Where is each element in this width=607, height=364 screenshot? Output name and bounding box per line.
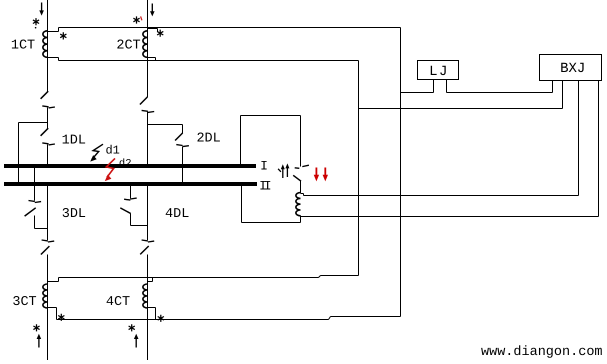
polarity asterisk 1CT primary (33, 18, 39, 25)
arrow: current out of 4CT (135, 338, 137, 348)
red fault current arrow 2 (324, 168, 326, 178)
svg-text:I: I (260, 158, 268, 173)
svg-text:d1: d1 (105, 143, 119, 157)
wire: bus tie CT secondary top to BXJ lead 3 (304, 195, 579, 197)
disconnector contact ticks feeder 2 (142, 110, 155, 112)
wire: 4CT secondary top tap (148, 278, 153, 282)
wire: LJ lead left (433, 80, 435, 93)
wire: bus tie CT secondary bottom to BXJ lead 4 (301, 216, 599, 218)
trip indication double arrows at bus tie breaker (278, 167, 287, 178)
wire: secondary bus D horizontal right (331, 316, 401, 318)
wire: secondary bus C jog (319, 276, 321, 278)
wire: bus B vertical to BXJ lead 2 (359, 108, 563, 110)
wire: feeder 2 branch to busbar II (182, 147, 184, 183)
disconnector blade feeder 1 (41, 91, 49, 99)
svg-text:d2: d2 (119, 158, 132, 170)
svg-text:2DL: 2DL (196, 131, 220, 146)
wire: bus tie bottom (242, 222, 301, 224)
current transformer 1CT coil (43, 31, 48, 58)
wire: bus tie below CT (300, 216, 302, 223)
breaker contact ticks feeder 4 (142, 240, 155, 242)
svg-text:4CT: 4CT (106, 295, 130, 310)
wire: BXJ lead 3 (578, 81, 580, 196)
wire: feeder 4 merge horizontal (131, 225, 148, 227)
svg-text:BXJ: BXJ (560, 61, 585, 77)
wire: 4CT secondary bottom tap (148, 308, 156, 320)
svg-text:1CT: 1CT (11, 38, 35, 53)
wire: feeder 1 primary middle (47, 108, 49, 129)
polarity asterisk 2CT primary (133, 16, 139, 23)
breaker contact ticks feeder 3 (42, 240, 55, 242)
breaker 1DL contact ticks (42, 143, 55, 145)
wire: feeder 1 incoming line (47, 0, 49, 92)
breaker 1DL blade (41, 128, 49, 136)
wire: bus tie CT top tap (301, 194, 304, 196)
wire: secondary bus D horizontal left (57, 319, 329, 321)
disconnector blade feeder 2 (140, 97, 148, 105)
relay BXJ box (540, 55, 602, 81)
wire: feeder 4 branch lower (130, 214, 132, 226)
polarity asterisk 4CT secondary (158, 315, 164, 322)
wire: secondary bus A vertical (400, 28, 402, 317)
wire: bus tie below breaker (300, 181, 302, 193)
disconnector 4DL blade (120, 208, 130, 214)
wire: secondary bus C horizontal right (321, 275, 359, 277)
arrow: current into 1CT (41, 3, 43, 12)
breaker blade feeder 4 (140, 246, 149, 254)
red prime mark 2CT (141, 16, 142, 20)
wire: feeder 4 branch from busbar II (130, 186, 132, 199)
wire: 3CT secondary top tap (48, 278, 59, 282)
svg-text:3CT: 3CT (12, 295, 36, 310)
svg-text:1DL: 1DL (62, 133, 86, 148)
polarity asterisk 1CT secondary (60, 32, 66, 39)
wire: bus tie top (241, 115, 301, 117)
svg-text:LJ: LJ (429, 64, 449, 80)
wire: 1CT secondary top tap (48, 28, 59, 32)
disconnector 4DL contact ticks (124, 198, 137, 200)
fault d1 lightning (92, 144, 103, 159)
wire: feeder 3 merge horizontal (35, 228, 48, 230)
wire: 3CT secondary bottom tap (48, 308, 57, 320)
bus tie breaker blade (293, 175, 301, 181)
wire: feeder 3 primary from busbar II (47, 186, 49, 240)
red fault current arrow 1 (315, 168, 317, 178)
wire: feeder 2 incoming line (147, 0, 149, 97)
svg-text:II: II (259, 178, 271, 193)
wire: feeder 1 branch to busbar II (18, 123, 20, 183)
polarity asterisk 4CT primary (129, 324, 135, 331)
wire: secondary bus D jog (329, 317, 331, 320)
wire: feeder 4 primary lower through CT (147, 255, 149, 361)
svg-text:3DL: 3DL (62, 207, 86, 222)
breaker 2DL blade (175, 133, 183, 141)
wire: LJ lead right (446, 80, 448, 93)
wire: feeder 3 branch from busbar I (34, 164, 36, 201)
arrow: current out of 3CT (38, 338, 40, 348)
current transformer 3CT coil (43, 284, 48, 308)
arrow: current into 2CT (151, 4, 153, 13)
wire: bus tie stub to busbar II (241, 186, 243, 223)
svg-text:www.diangon.com: www.diangon.com (481, 345, 603, 360)
relay LJ box (418, 61, 459, 80)
disconnector 3DL contact ticks (29, 201, 42, 203)
wire: feeder 1 to busbar I (47, 145, 49, 165)
svg-text:2CT: 2CT (116, 38, 140, 53)
disconnector contact ticks feeder 1 (42, 106, 55, 108)
wire: feeder 3 primary lower through CT (47, 255, 49, 361)
svg-text:4DL: 4DL (165, 207, 189, 222)
wire: LJ to BXJ lead 1 (447, 92, 553, 94)
wire: feeder 4 primary from busbar II (147, 186, 149, 240)
wire: feeder 2 primary to busbar I (147, 112, 149, 165)
breaker blade feeder 3 (41, 246, 50, 254)
wire: 1CT secondary bottom tap (48, 58, 59, 61)
polarity asterisk 2CT secondary (157, 30, 163, 37)
wire: 2CT secondary bottom tap (148, 58, 156, 61)
wire: bus tie right upper (300, 116, 302, 167)
busbar I (4, 164, 256, 168)
wire: 2CT secondary top tap (148, 29, 158, 32)
wire: feeder 2 branch horizontal (148, 124, 183, 126)
wire: secondary bus B horizontal (59, 60, 359, 62)
wire: bus A vertical to LJ (401, 92, 434, 94)
bus tie breaker contact ticks (295, 165, 309, 168)
wire: feeder 2 branch upper (182, 125, 184, 134)
wire: BXJ lead 2 (562, 81, 564, 109)
current transformer 2CT coil (143, 31, 148, 58)
dot below asterisk (35, 27, 37, 29)
disconnector 3DL blade (25, 208, 36, 216)
wire: secondary bus B vertical (358, 61, 360, 276)
breaker 2DL contact ticks (176, 145, 189, 147)
wire: secondary bus A horizontal (59, 27, 401, 29)
wire: bus tie stub from busbar I (240, 116, 242, 165)
wire: feeder 3 branch lower (34, 216, 36, 229)
busbar II (4, 182, 257, 186)
wire: BXJ lead 4 (598, 81, 600, 217)
current transformer 4CT coil (143, 284, 148, 308)
wire: BXJ lead 1 (552, 81, 554, 93)
wire: feeder 1 branch horizontal (19, 122, 48, 124)
polarity asterisk 3CT primary (33, 324, 39, 331)
fault d2 lightning (red) (106, 158, 115, 177)
wire: secondary bus C horizontal left (59, 277, 319, 279)
bus tie current transformer coil (296, 193, 301, 216)
polarity asterisk 3CT secondary (58, 314, 64, 321)
